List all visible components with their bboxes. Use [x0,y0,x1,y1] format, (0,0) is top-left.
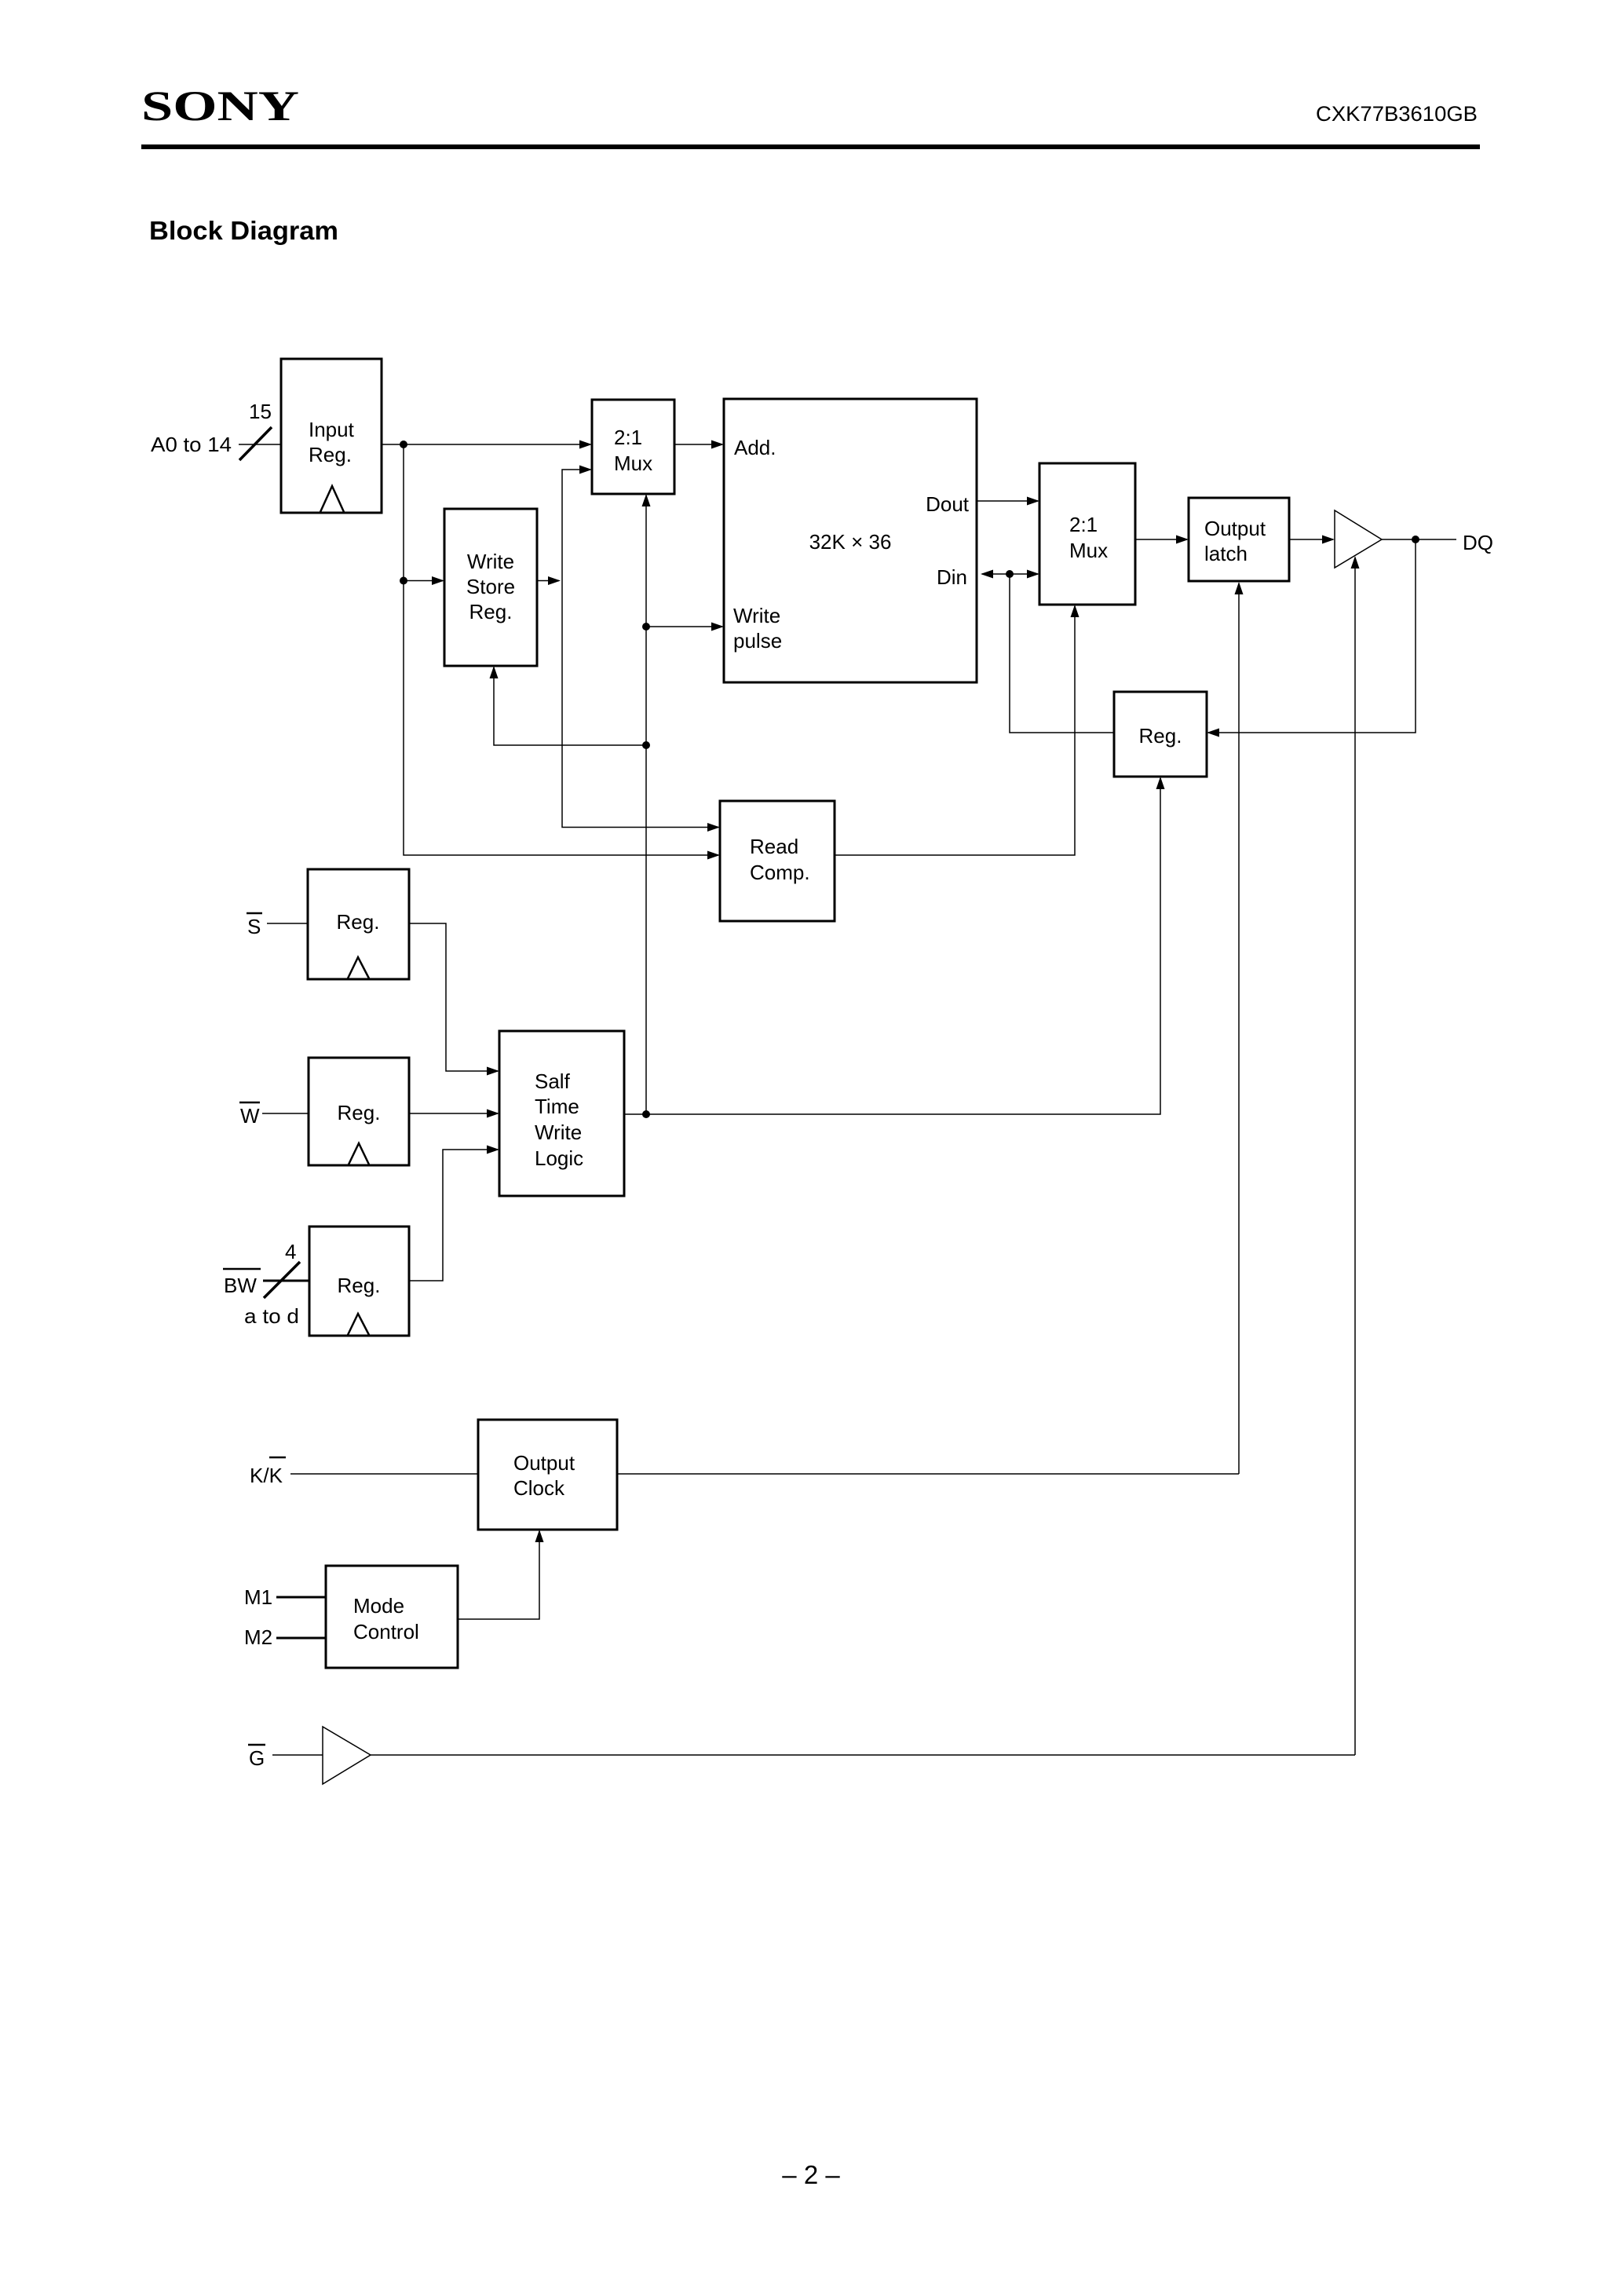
arrow into Mux1 select [642,494,651,506]
wire Mode Control to Output Clock [458,1531,539,1619]
node address junction [400,441,407,448]
arrow into STWL input2 [487,1110,499,1118]
block Salf Time Write Logic [499,1031,624,1196]
arrow into 32K Add [711,441,724,449]
arrow into STWL input3 [487,1146,499,1154]
block BW Reg [309,1227,409,1336]
svg-text:Reg.: Reg. [1139,724,1182,748]
arrow into 32K Write pulse [711,623,724,631]
bus slash 15 [239,427,272,460]
svg-text:Mode: Mode [353,1594,404,1618]
svg-text:Reg.: Reg. [469,600,513,623]
svg-text:Control: Control [353,1620,419,1643]
wire Mux2 to Output latch [1135,539,1187,540]
svg-text:Write: Write [733,604,780,627]
wire tap to Write Store Reg clock [494,667,646,745]
wire W input [262,1113,309,1114]
wire output clock riser x1578 [1238,583,1240,1474]
node write-store junction [400,577,407,585]
svg-text:Input: Input [309,418,355,441]
block Output Clock [478,1420,617,1530]
svg-text:latch: latch [1204,542,1248,565]
svg-text:Clock: Clock [513,1476,565,1500]
svg-text:Reg.: Reg. [338,1101,381,1124]
block 2:1 Mux second [1039,463,1135,605]
svg-text:4: 4 [285,1240,296,1263]
svg-text:Write: Write [467,550,514,573]
arrow into output buffer enable [1351,556,1360,569]
svg-text:Din: Din [937,565,967,589]
arrow into Write Store Reg bottom [490,666,499,678]
wire STWL output to Reg clock [624,778,1160,1114]
svg-text:Reg.: Reg. [337,910,380,934]
arrow into Reg right [1207,729,1219,737]
wire buffer to DQ [1382,539,1456,540]
wire M1 input [276,1596,326,1599]
overline K [269,1457,286,1459]
svg-text:BW: BW [224,1274,257,1297]
node write pulse tap [642,623,650,631]
arrow into output buffer [1322,536,1335,544]
wire Read Comp output to Mux2 select [835,606,1075,855]
svg-text:K/K: K/K [250,1464,283,1487]
arrow into Mux1 input1 [579,441,592,449]
wire Din bidirectional [982,573,1038,575]
overline BW [223,1268,261,1270]
wire G input [272,1754,323,1756]
arrow into Output Clock bottom [535,1530,544,1542]
svg-text:M2: M2 [244,1625,272,1649]
wire Din junction down to Reg output [1010,574,1114,733]
arrow into Read Comp input1 [707,823,720,832]
bus slash 4 [264,1262,300,1298]
block Mode Control [326,1566,458,1668]
block 32K x 36 RAM [724,399,977,682]
block Write Store Reg [444,509,537,666]
svg-text:Add.: Add. [734,436,776,459]
wire Mux1 to 32K Add [674,444,722,445]
svg-text:S: S [247,915,261,938]
svg-text:CXK77B3610GB: CXK77B3610GB [1316,102,1478,126]
svg-text:Comp.: Comp. [750,861,810,884]
svg-text:Store: Store [466,575,515,598]
wire write-enable riser x823 [645,495,647,1114]
block Input Reg [281,359,382,513]
wire Input Reg to Mux1 [382,444,590,445]
overline S [247,912,262,915]
block Read Comp [720,801,835,921]
svg-text:Reg.: Reg. [338,1274,381,1297]
wire Output latch to buffer [1289,539,1333,540]
arrow into Mux2 Din input [1027,570,1039,579]
svg-text:32K × 36: 32K × 36 [809,530,892,554]
svg-text:Mux: Mux [614,452,652,475]
wire S Reg to STWL [409,923,498,1071]
arrow into Output latch [1176,536,1189,544]
wire K input [290,1473,478,1475]
arrow into Read Comp input2 [707,851,720,860]
wire G buffer output [371,1754,1355,1756]
svg-text:M1: M1 [244,1585,272,1609]
wire S input [267,923,308,924]
header rule [141,144,1480,149]
svg-text:a to d: a to d [244,1304,299,1328]
block Output latch [1189,498,1289,581]
svg-text:Dout: Dout [926,492,970,516]
wire Write Store Reg output to riser [537,580,559,582]
svg-text:Salf: Salf [535,1069,571,1093]
arrow into 32K Din [981,570,993,579]
wire A0-14 input [239,444,281,445]
svg-text:DQ: DQ [1463,531,1493,554]
arrow into Write Store Reg [432,576,444,585]
svg-text:Reg.: Reg. [309,443,352,466]
block Reg feedback [1114,692,1207,777]
svg-text:Logic: Logic [535,1146,583,1170]
svg-text:pulse: pulse [733,629,782,653]
arrow into Mux2 Dout input [1027,497,1039,506]
svg-text:15: 15 [249,400,272,423]
wire riser x716 Mux1 input2 and Read Comp input1 [562,470,718,828]
wire Output Clock to latch riser [617,1473,1239,1475]
arrow into Output latch bottom [1235,582,1244,594]
wire address down to Read Comp [404,444,718,855]
wire BW input [263,1280,309,1282]
svg-text:W: W [240,1104,260,1128]
G buffer triangle [323,1727,371,1784]
wire tap to 32K Write pulse [646,626,722,627]
svg-text:Time: Time [535,1095,579,1118]
wire 32K Dout to Mux2 [977,500,1038,502]
overline G [248,1744,265,1746]
arrow into Mux1 input2 [579,466,592,474]
wire M2 input [276,1637,326,1640]
svg-text:Output: Output [1204,517,1266,540]
svg-text:Write: Write [535,1121,582,1144]
svg-text:SONY: SONY [141,82,299,130]
svg-text:Mux: Mux [1069,539,1108,562]
arrow into Mux2 select [1071,605,1080,617]
svg-text:Output: Output [513,1451,575,1475]
node Din junction [1006,570,1014,578]
node DQ junction [1412,536,1419,543]
wire BW Reg to STWL [409,1150,498,1281]
svg-text:Read: Read [750,835,798,858]
block S Reg [308,869,409,979]
block W Reg [309,1058,409,1165]
node write store clock tap [642,741,650,749]
arrow into Reg bottom [1156,777,1165,789]
svg-text:2:1: 2:1 [1069,513,1098,536]
output buffer triangle [1335,510,1382,568]
svg-text:A0 to 14: A0 to 14 [151,433,232,456]
wire W Reg to STWL [409,1113,498,1114]
svg-text:Block Diagram: Block Diagram [149,216,338,245]
overline W [239,1102,260,1104]
svg-text:2:1: 2:1 [614,426,642,449]
wire DQ feedback to Reg input [1208,539,1416,733]
arrow onto riser x716 [548,576,561,585]
wire junction to Write Store Reg [404,580,443,582]
wire G riser x1726 [1354,558,1356,1755]
node STWL output junction [642,1110,650,1118]
svg-text:– 2 –: – 2 – [782,2160,840,2189]
block 2:1 Mux first [592,400,674,494]
svg-text:G: G [249,1746,265,1770]
arrow into STWL input1 [487,1067,499,1076]
